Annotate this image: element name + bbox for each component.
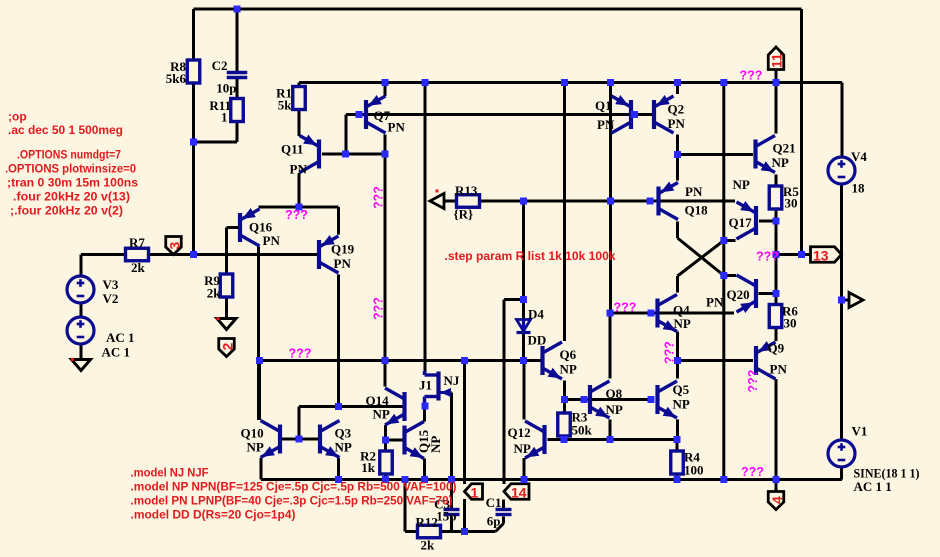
svg-text:NP: NP — [335, 440, 352, 455]
svg-text:Q11: Q11 — [281, 142, 303, 157]
junction 42 — [607, 436, 614, 443]
svg-text:Q5: Q5 — [673, 382, 690, 397]
probe arrow right — [849, 293, 863, 308]
junction 7 — [674, 79, 681, 86]
wire C2 to R11 — [236, 78, 239, 99]
ground — [71, 358, 91, 371]
svg-text:100: 100 — [684, 463, 704, 478]
wire R4 bottom stub — [676, 474, 679, 480]
spice directive model3 — [131, 494, 453, 508]
wire Q18 base bus crossing — [609, 201, 612, 313]
wire Q19 emitter riser — [337, 207, 340, 235]
wire V3 top — [80, 255, 83, 277]
svg-text:13: 13 — [813, 248, 829, 264]
svg-text:Q18: Q18 — [685, 203, 709, 218]
wire J1 gate — [445, 393, 452, 480]
svg-text:.OPTIONS plotwinsize=0: .OPTIONS plotwinsize=0 — [5, 162, 136, 176]
wire base bus y114 — [346, 113, 654, 116]
resistor R13 — [454, 183, 480, 222]
svg-text:???: ??? — [741, 465, 764, 479]
wire R11 bottom to node — [194, 122, 238, 143]
junction 17 — [647, 198, 654, 205]
svg-text:C2: C2 — [212, 58, 228, 73]
wire Q4 emitter drop — [676, 332, 679, 361]
wire Q15 collector riser — [423, 406, 426, 422]
wire port1 column — [463, 361, 466, 485]
wire R2 bottom — [384, 474, 387, 480]
wire R2 top — [384, 440, 387, 451]
svg-text:Q21: Q21 — [773, 141, 796, 156]
svg-text:???: ??? — [663, 341, 677, 364]
transistor Q8 — [590, 381, 623, 418]
junction 52 — [773, 476, 780, 483]
junction 0 — [234, 6, 241, 13]
svg-text:50k: 50k — [572, 423, 593, 438]
svg-text:Q12: Q12 — [508, 425, 531, 440]
wire Q9 collector drop — [775, 379, 778, 480]
wire R4 top stub — [676, 440, 679, 452]
svg-text:Q3: Q3 — [335, 426, 352, 441]
svg-text:1: 1 — [471, 485, 479, 501]
wire bottom rail — [261, 478, 842, 481]
svg-text:5k6: 5k6 — [166, 71, 187, 86]
net label ??? d — [372, 297, 386, 320]
wire D4 anode — [522, 300, 525, 320]
resistor R11 — [209, 98, 243, 125]
wire node13 column — [775, 221, 778, 305]
wire Q12 emitter drop — [523, 458, 526, 480]
wire Q14 emitter drop — [384, 425, 387, 440]
wire R5 bottom — [775, 209, 778, 221]
junction 20 — [720, 237, 727, 244]
wire Q12 collector riser — [523, 361, 526, 420]
ground near R9 — [217, 317, 237, 330]
junction 27 — [838, 297, 845, 304]
wire R8 top — [192, 9, 195, 60]
wire comp rail y531 right — [441, 530, 496, 533]
junction 13 — [382, 151, 389, 158]
junction 31 — [520, 296, 527, 303]
junction 10 — [356, 111, 363, 118]
junction 22 — [773, 251, 780, 258]
wire Q11 collector drop — [298, 174, 301, 208]
junction 33 — [674, 357, 681, 364]
svg-text:2: 2 — [220, 343, 236, 351]
junction 50 — [674, 476, 681, 483]
voltage source V2 — [67, 317, 135, 360]
junction 25 — [607, 310, 614, 317]
wire Q1 collector drop — [609, 135, 612, 202]
wire Q15 emitter drop — [423, 459, 426, 480]
wire C3 bottom stub — [450, 517, 453, 532]
wire Q6 emitter drop — [563, 381, 566, 400]
svg-text:???: ??? — [746, 370, 760, 393]
port 13 — [811, 247, 842, 264]
junction 34 — [335, 403, 342, 410]
junction 24 — [773, 290, 780, 297]
wire C2 top — [236, 9, 239, 72]
spice directive options1 — [17, 148, 121, 162]
wire R8 bottom to node — [192, 83, 195, 143]
transistor Q21 — [756, 136, 796, 173]
svg-text:5k: 5k — [278, 98, 293, 113]
svg-text:PN: PN — [597, 117, 615, 132]
wire V2 to ground — [80, 344, 83, 359]
wire V4 top drop — [841, 83, 844, 158]
transistor Q19 — [319, 235, 355, 273]
diode D4 — [517, 307, 547, 348]
junction 2 — [190, 251, 197, 258]
svg-text:NP: NP — [428, 436, 443, 453]
transistor Q5 — [658, 381, 690, 418]
svg-text:2k: 2k — [131, 260, 146, 275]
transistor Q10 — [241, 421, 281, 458]
junction 32 — [520, 357, 527, 364]
transistor Q4 — [658, 295, 691, 332]
svg-text:Q17: Q17 — [729, 215, 753, 230]
wire cross diagonal A — [678, 238, 724, 276]
wire Q18 collector drop — [676, 222, 679, 239]
wire Q7 base link — [346, 115, 359, 155]
svg-text:NP: NP — [673, 397, 690, 412]
resistor R7 — [126, 235, 149, 275]
svg-text:Q2: Q2 — [668, 102, 685, 117]
svg-text:{R}: {R} — [454, 207, 474, 222]
svg-text:10p: 10p — [216, 81, 236, 96]
svg-text:Q8: Q8 — [606, 386, 623, 401]
wire base wire Q8 Q5 — [565, 398, 652, 401]
resistor R6 — [769, 304, 798, 331]
svg-text:PN: PN — [388, 120, 406, 135]
svg-text:18: 18 — [852, 181, 866, 196]
junction 37 — [382, 437, 389, 444]
wire Q11 base — [322, 153, 385, 156]
svg-text:;op: ;op — [8, 110, 27, 124]
junction 19 — [773, 218, 780, 225]
net label ??? g — [614, 301, 637, 315]
wire R13 rail — [443, 200, 456, 203]
resistor R8 — [166, 59, 200, 86]
junction 53 — [461, 528, 468, 535]
svg-text:3: 3 — [167, 242, 183, 250]
wire mirror node to Q14 base — [339, 405, 403, 408]
wire V4 bottom drop — [840, 184, 843, 440]
wire Q3 emitter drop — [337, 458, 340, 480]
svg-text:2k: 2k — [421, 538, 436, 553]
wire R13 node drop — [522, 201, 525, 300]
wire bus x723 — [722, 83, 725, 480]
junction 41 — [561, 436, 568, 443]
capacitor C1 — [486, 495, 512, 529]
wire Q17 base — [759, 220, 776, 223]
flag net 4 — [768, 492, 785, 510]
transistor Q9 — [756, 341, 787, 380]
spice directive options2 — [5, 162, 136, 176]
wire upper rail y82 — [299, 81, 842, 84]
junction 6 — [607, 79, 614, 86]
junction 9 — [773, 79, 780, 86]
transistor Q14 — [366, 388, 405, 425]
net label ??? f — [663, 341, 677, 364]
svg-text:V4: V4 — [851, 149, 867, 164]
wire C1 jog — [496, 517, 504, 532]
voltage source V4 — [828, 149, 867, 196]
wire Q16 emitter to Q11 collector — [259, 206, 339, 209]
svg-text:NP: NP — [606, 402, 623, 417]
svg-text:PN: PN — [263, 233, 281, 248]
svg-text:.four 20kHz 20 v(13): .four 20kHz 20 v(13) — [13, 190, 130, 204]
spice directive model1 — [131, 466, 209, 480]
resistor R9 — [204, 273, 233, 301]
resistor R1 — [276, 86, 305, 113]
transistor Q7 — [366, 95, 405, 135]
junction 48 — [448, 476, 455, 483]
wire Q7 collector drop — [384, 135, 387, 361]
wire Q7 emitter riser — [384, 83, 387, 97]
svg-text:???: ??? — [285, 208, 308, 222]
resistor R3 — [558, 410, 593, 438]
net label ??? c — [372, 186, 386, 209]
wire R12 riser — [404, 480, 407, 532]
svg-text:V3: V3 — [103, 277, 119, 292]
wire Q20 base — [759, 292, 777, 295]
wire Q4 collector riser — [676, 276, 679, 293]
svg-text:NP: NP — [247, 440, 264, 455]
junction 26 — [648, 310, 655, 317]
wire Q8 collector riser — [609, 313, 612, 379]
svg-text:1: 1 — [221, 110, 228, 125]
wire left bus y360 — [259, 359, 543, 362]
wire Q15 base — [386, 439, 404, 442]
svg-text:NP: NP — [772, 155, 789, 170]
wire Q10 Q3 base — [282, 438, 318, 441]
svg-text:11: 11 — [769, 53, 785, 68]
wire Q12 base — [548, 438, 565, 441]
svg-text:30: 30 — [784, 316, 797, 331]
junction 23 — [798, 251, 805, 258]
transistor Q12 — [508, 421, 545, 458]
wire Q2 emitter riser — [676, 83, 679, 95]
svg-text:NP: NP — [560, 362, 577, 377]
net label ??? b — [285, 208, 308, 222]
transistor Q20 — [706, 275, 756, 313]
svg-text:4: 4 — [769, 496, 785, 504]
junction 35 — [422, 403, 429, 410]
svg-text:AC 1: AC 1 — [102, 345, 131, 360]
wire bus x610 — [609, 83, 612, 202]
wire Q2 collector drop — [676, 135, 679, 155]
svg-text:;.four 20kHz 20 v(2): ;.four 20kHz 20 v(2) — [10, 204, 123, 218]
svg-text:R13: R13 — [455, 183, 478, 198]
svg-text:R7: R7 — [129, 235, 145, 250]
spice directive step — [445, 249, 616, 263]
wire Q9 base — [677, 359, 753, 362]
svg-text:NP: NP — [674, 316, 691, 331]
svg-text:Q1: Q1 — [595, 98, 612, 113]
svg-text:Q6: Q6 — [560, 347, 577, 362]
junction 49 — [521, 476, 528, 483]
spice directive op — [8, 110, 27, 124]
junction 1 — [190, 139, 197, 146]
svg-text:R12: R12 — [416, 515, 438, 530]
wire port14 column — [503, 300, 506, 485]
wire R1 top stub — [298, 83, 301, 87]
wire R3 top stub — [563, 400, 566, 414]
svg-text:???: ??? — [289, 347, 312, 361]
svg-text:AC 1 1: AC 1 1 — [854, 479, 892, 494]
resistor R5 — [769, 184, 799, 211]
svg-text:NP: NP — [514, 441, 531, 456]
spice directive ac — [8, 123, 123, 137]
wire flag11 stub — [775, 70, 778, 83]
junction 51 — [720, 476, 727, 483]
junction 43 — [674, 436, 681, 443]
transistor Q17 — [729, 177, 757, 239]
wire Q10 collector riser — [258, 361, 261, 421]
wire Q18 emitter riser — [676, 155, 679, 181]
junction 30 — [461, 357, 468, 364]
wire Q21 base — [678, 153, 754, 156]
wire Q17 collector link — [724, 239, 736, 242]
wire Q8 emitter drop — [609, 420, 612, 440]
transistor Q2 — [654, 95, 685, 133]
svg-text:NP: NP — [733, 177, 750, 192]
wire top rail — [194, 8, 802, 11]
spice directive model4 — [131, 508, 296, 522]
svg-text:PN: PN — [290, 162, 308, 177]
transistor Q15 — [405, 422, 444, 459]
junction 14 — [296, 204, 303, 211]
wire R3 bottom stub — [563, 436, 566, 440]
capacitor C2 — [212, 58, 248, 96]
wire R13 to Q17 — [480, 200, 735, 203]
spice directive model2 — [131, 480, 457, 494]
svg-text:PN: PN — [706, 295, 724, 310]
junction 15 — [520, 198, 527, 205]
svg-text:AC 1: AC 1 — [106, 330, 135, 345]
wire R9 bottom — [225, 297, 228, 318]
wire Q14 collector riser — [384, 361, 387, 387]
transistor Q3 — [320, 421, 352, 458]
voltage source V3 — [67, 276, 119, 306]
net label ??? a — [740, 69, 763, 83]
junction 4 — [422, 79, 429, 86]
junction 8 — [720, 79, 727, 86]
svg-text:PN: PN — [685, 184, 703, 199]
jfet J1 — [419, 371, 460, 406]
wire Q10 emitter drop — [260, 458, 263, 480]
junction 11 — [631, 111, 638, 118]
junction 28 — [256, 357, 263, 364]
svg-text:.model NP NPN(BF=125 Cje=.5p C: .model NP NPN(BF=125 Cje=.5p Cjc=.5p Rb=… — [131, 480, 457, 494]
svg-text:V2: V2 — [103, 291, 119, 306]
resistor R2 — [360, 449, 392, 476]
junction 45 — [382, 476, 389, 483]
wire V1 bottom — [840, 467, 843, 480]
wire Q1 emitter riser — [609, 83, 612, 95]
net label ??? i — [756, 250, 779, 264]
svg-text:PN: PN — [334, 256, 352, 271]
svg-text:.ac dec 50 1 500meg: .ac dec 50 1 500meg — [8, 123, 123, 137]
net label ??? k — [746, 370, 760, 393]
wire D4 branch — [504, 298, 524, 301]
wire emitters rail y439 — [564, 438, 677, 441]
wire Q21 collector riser — [775, 83, 778, 134]
wire base riser to mirror node — [299, 407, 339, 440]
junction 18 — [674, 151, 681, 158]
junction 44 — [335, 476, 342, 483]
resistor R12 — [416, 515, 441, 553]
transistor Q16 — [240, 208, 280, 248]
wire Q19 collector drop — [337, 275, 340, 407]
svg-text:.OPTIONS numdgt=7: .OPTIONS numdgt=7 — [17, 148, 121, 162]
junction 36 — [296, 436, 303, 443]
svg-text:Q19: Q19 — [331, 242, 355, 257]
svg-text:.model NJ NJF: .model NJ NJF — [131, 466, 209, 480]
wire Q4 base — [610, 312, 734, 315]
svg-text:PN: PN — [770, 362, 788, 377]
transistor Q11 — [281, 135, 319, 177]
svg-text:V1: V1 — [852, 424, 868, 439]
svg-text:NP: NP — [373, 407, 390, 422]
wire mid rail y254 left — [81, 253, 126, 256]
svg-text:Q10: Q10 — [241, 426, 264, 441]
flag net 2 — [219, 339, 236, 357]
transistor Q18 — [659, 182, 709, 220]
net label ??? e — [289, 347, 312, 361]
svg-text:.model PN LPNP(BF=40 Cje=.3p C: .model PN LPNP(BF=40 Cje=.3p Cjc=1.5p Rb… — [131, 494, 453, 508]
junction 38 — [561, 396, 568, 403]
flag net 3 — [166, 237, 183, 255]
wire Q5 emitter drop — [676, 420, 679, 440]
transistor Q1 — [595, 95, 631, 133]
wire top-right drop to node 13 column — [800, 9, 803, 255]
wire probe stub — [842, 299, 849, 302]
svg-text:;tran 0 30m 15m 100ns: ;tran 0 30m 15m 100ns — [7, 176, 138, 190]
spice directive four1 — [13, 190, 130, 204]
junction 47 — [421, 476, 428, 483]
wire Q21 emitter to R5 — [775, 175, 778, 187]
svg-text:???: ??? — [372, 297, 386, 320]
svg-text:14: 14 — [511, 485, 527, 501]
wire Q20 collector link — [724, 274, 736, 277]
wire cross diagonal B — [678, 241, 724, 277]
junction 40 — [648, 396, 655, 403]
port 1 — [465, 484, 483, 501]
svg-text:.step param R list 1k 10k 100k: .step param R list 1k 10k 100k — [445, 249, 616, 263]
spice directive tran — [7, 176, 138, 190]
wire port13 rail — [776, 253, 811, 256]
svg-text:Q20: Q20 — [727, 287, 750, 302]
svg-text:???: ??? — [756, 250, 779, 264]
junction 5 — [561, 79, 568, 86]
svg-text:???: ??? — [740, 69, 763, 83]
svg-text:DD: DD — [528, 333, 547, 348]
wire Q5 collector riser — [676, 361, 679, 379]
junction 16 — [607, 198, 614, 205]
wire R6 to Q9 emitter — [775, 327, 778, 342]
svg-text:1k: 1k — [361, 460, 376, 475]
resistor R4 — [671, 450, 704, 478]
spice directive four2 — [10, 204, 123, 218]
net label ??? l — [741, 465, 764, 479]
probe arrow left — [430, 190, 444, 209]
wire comp rail y531 left — [405, 530, 418, 533]
wire node down to rail 254 — [192, 142, 195, 255]
svg-text:30: 30 — [785, 196, 798, 211]
svg-text:2k: 2k — [207, 286, 222, 301]
wire V3 to V2 — [80, 303, 83, 317]
